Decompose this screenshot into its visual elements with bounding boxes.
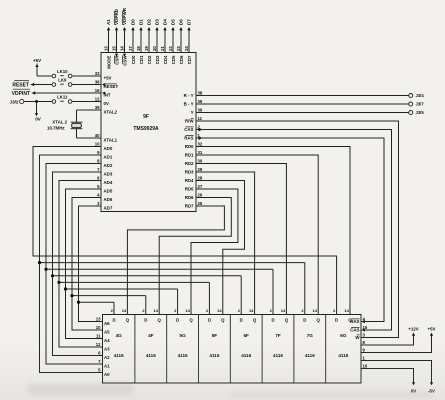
svg-text:Q: Q: [158, 317, 162, 322]
svg-text:3: 3: [363, 333, 366, 338]
svg-text:D: D: [208, 317, 211, 322]
svg-text:14: 14: [217, 308, 222, 313]
svg-text:7: 7: [97, 167, 100, 172]
svg-text:RD1: RD1: [185, 153, 194, 158]
svg-text:7F: 7F: [275, 333, 281, 338]
svg-text:A1: A1: [106, 19, 111, 25]
svg-text:CAS: CAS: [350, 328, 359, 333]
svg-text:14: 14: [313, 308, 318, 313]
svg-text:2: 2: [174, 308, 177, 313]
svg-text:4F: 4F: [148, 333, 154, 338]
svg-text:14: 14: [249, 308, 254, 313]
svg-text:D: D: [271, 317, 274, 322]
svg-text:J3/7: J3/7: [416, 102, 425, 107]
svg-text:+5V: +5V: [33, 58, 42, 63]
svg-text:27: 27: [198, 184, 203, 189]
svg-text:VDPRD: VDPRD: [114, 8, 119, 25]
svg-text:RD2: RD2: [185, 161, 194, 166]
svg-text:2: 2: [301, 308, 304, 313]
svg-text:0V: 0V: [104, 101, 109, 106]
svg-text:5G: 5G: [180, 333, 187, 338]
svg-text:30: 30: [198, 159, 203, 164]
svg-text:28: 28: [198, 176, 203, 181]
svg-text:+5V: +5V: [104, 76, 112, 81]
svg-text:RESET: RESET: [12, 82, 29, 88]
svg-text:23: 23: [176, 46, 181, 51]
svg-text:12: 12: [95, 97, 100, 102]
svg-text:LK11: LK11: [57, 95, 68, 100]
svg-text:14: 14: [154, 308, 159, 313]
svg-text:2: 2: [270, 308, 273, 313]
svg-text:17: 17: [128, 46, 133, 51]
svg-text:8: 8: [97, 159, 100, 164]
svg-text:26: 26: [198, 193, 203, 198]
svg-text:J3/4: J3/4: [416, 93, 425, 98]
svg-text:VDPWR: VDPWR: [122, 7, 127, 25]
svg-text:CAS: CAS: [184, 127, 193, 132]
svg-text:VDPINT: VDPINT: [12, 91, 30, 97]
svg-text:33: 33: [95, 71, 100, 76]
svg-text:CD4: CD4: [163, 55, 168, 64]
svg-text:14: 14: [344, 308, 349, 313]
svg-text:38: 38: [198, 91, 203, 96]
svg-text:2: 2: [111, 308, 114, 313]
svg-text:D: D: [176, 317, 179, 322]
svg-text:5: 5: [97, 184, 100, 189]
svg-text:4G: 4G: [116, 333, 123, 338]
svg-text:CD0: CD0: [131, 55, 136, 64]
svg-text:RAS: RAS: [350, 319, 359, 324]
svg-text:A5: A5: [104, 329, 110, 334]
svg-text:CD6: CD6: [179, 55, 184, 64]
svg-text:B - Y: B - Y: [184, 102, 194, 107]
svg-text:AD2: AD2: [104, 163, 113, 168]
svg-text:24: 24: [184, 46, 189, 51]
svg-text:11: 11: [198, 116, 203, 121]
svg-text:Y: Y: [191, 110, 194, 115]
svg-text:D: D: [240, 317, 243, 322]
svg-text:Q: Q: [285, 317, 289, 322]
svg-text:3: 3: [97, 201, 100, 206]
svg-text:AD1: AD1: [104, 155, 113, 160]
svg-text:14: 14: [281, 308, 286, 313]
svg-text:11: 11: [96, 334, 101, 339]
svg-text:J3/2: J3/2: [10, 99, 19, 104]
svg-text:CD7: CD7: [187, 55, 192, 64]
svg-text:RD6: RD6: [185, 195, 194, 200]
svg-text:RD3: RD3: [185, 170, 194, 175]
svg-text:RESET: RESET: [104, 84, 119, 89]
svg-text:+12V: +12V: [408, 327, 418, 332]
svg-text:7G: 7G: [307, 333, 314, 338]
svg-text:18: 18: [136, 46, 141, 51]
svg-text:10.7MHz: 10.7MHz: [47, 126, 65, 131]
svg-text:CD1: CD1: [139, 55, 144, 64]
svg-text:Q: Q: [221, 317, 225, 322]
svg-text:2: 2: [206, 308, 209, 313]
svg-text:35: 35: [198, 99, 203, 104]
svg-text:Q: Q: [126, 317, 130, 322]
svg-text:4: 4: [97, 193, 100, 198]
svg-text:32: 32: [198, 142, 203, 147]
svg-text:40: 40: [95, 133, 100, 138]
svg-text:R - Y: R - Y: [184, 93, 194, 98]
svg-text:Q: Q: [189, 317, 193, 322]
svg-text:J3/5: J3/5: [416, 110, 425, 115]
svg-text:2: 2: [142, 308, 145, 313]
svg-text:CD5: CD5: [171, 55, 176, 64]
svg-text:RD4: RD4: [185, 178, 194, 183]
svg-text:D: D: [144, 317, 147, 322]
svg-text:AD6: AD6: [104, 197, 113, 202]
svg-text:RD5: RD5: [185, 187, 194, 192]
svg-text:6F: 6F: [244, 333, 250, 338]
svg-text:+5V: +5V: [428, 327, 436, 332]
svg-text:13: 13: [96, 317, 101, 322]
svg-text:AD7: AD7: [104, 206, 113, 211]
svg-text:RD7: RD7: [185, 204, 194, 209]
svg-text:CSW: CSW: [122, 55, 127, 66]
svg-text:19: 19: [144, 46, 149, 51]
svg-text:CD2: CD2: [147, 55, 152, 64]
svg-text:D4: D4: [163, 19, 168, 25]
svg-text:D7: D7: [187, 19, 192, 25]
svg-text:25: 25: [198, 201, 203, 206]
svg-text:AD5: AD5: [104, 189, 113, 194]
svg-text:D3: D3: [155, 19, 160, 25]
svg-text:6: 6: [97, 176, 100, 181]
svg-text:CD3: CD3: [155, 55, 160, 64]
svg-text:2: 2: [238, 308, 241, 313]
svg-text:31: 31: [198, 150, 203, 155]
svg-text:A6: A6: [104, 321, 110, 326]
svg-text:36: 36: [198, 108, 203, 113]
svg-text:14: 14: [122, 308, 127, 313]
svg-text:LK10: LK10: [57, 69, 68, 74]
svg-text:22: 22: [168, 46, 173, 51]
svg-text:D0: D0: [131, 19, 136, 25]
svg-text:D: D: [112, 317, 115, 322]
svg-text:D5: D5: [171, 19, 176, 25]
svg-text:10: 10: [95, 142, 100, 147]
svg-text:29: 29: [198, 167, 203, 172]
svg-text:13: 13: [104, 46, 109, 51]
svg-text:D: D: [335, 317, 338, 322]
svg-text:RD0: RD0: [185, 144, 194, 149]
svg-text:TMS9929A: TMS9929A: [133, 126, 159, 132]
svg-text:16: 16: [95, 88, 100, 93]
svg-text:6G: 6G: [340, 333, 347, 338]
svg-text:20: 20: [152, 46, 157, 51]
svg-text:Q: Q: [253, 317, 257, 322]
svg-text:D6: D6: [179, 19, 184, 25]
svg-text:9F: 9F: [143, 114, 149, 120]
svg-text:MODE: MODE: [106, 55, 111, 68]
svg-text:RAS: RAS: [184, 136, 193, 141]
svg-text:Q: Q: [317, 317, 321, 322]
svg-text:XTAL 2: XTAL 2: [52, 119, 67, 124]
svg-text:XTAL2: XTAL2: [104, 110, 118, 115]
svg-text:XTAL1: XTAL1: [104, 138, 118, 143]
svg-text:LK9: LK9: [58, 78, 67, 83]
svg-text:D1: D1: [139, 19, 144, 25]
svg-text:2: 2: [333, 308, 336, 313]
svg-text:5F: 5F: [212, 333, 218, 338]
svg-text:AD3: AD3: [104, 172, 113, 177]
svg-text:21: 21: [160, 46, 165, 51]
svg-text:R/W: R/W: [185, 119, 194, 124]
svg-text:D: D: [303, 317, 306, 322]
svg-text:10: 10: [96, 325, 101, 330]
svg-text:9: 9: [97, 150, 100, 155]
svg-text:0V: 0V: [35, 117, 42, 122]
svg-text:14: 14: [120, 46, 125, 51]
svg-text:36: 36: [95, 80, 100, 85]
svg-text:14: 14: [185, 308, 190, 313]
svg-text:39: 39: [95, 105, 100, 110]
svg-text:AD0: AD0: [104, 146, 113, 151]
svg-text:15: 15: [112, 46, 117, 51]
svg-text:D2: D2: [147, 19, 152, 25]
svg-text:AD4: AD4: [104, 180, 113, 185]
